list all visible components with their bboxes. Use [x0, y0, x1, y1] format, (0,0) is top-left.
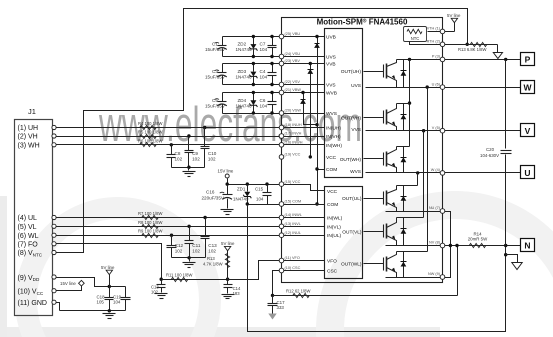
svg-text:VCC: VCC	[326, 155, 337, 161]
svg-text:R7 100 1/8W: R7 100 1/8W	[138, 211, 162, 216]
capacitor C13	[203, 216, 206, 219]
wire L3 collector	[397, 251, 428, 253]
svg-text:CSC: CSC	[327, 269, 338, 275]
svg-text:VCC: VCC	[327, 189, 338, 195]
svg-text:15V line: 15V line	[60, 281, 76, 286]
transistor Q5 low-side V	[383, 225, 385, 238]
svg-text:(20) VSW: (20) VSW	[285, 109, 302, 113]
resistor R7	[142, 215, 159, 219]
svg-text:15uF/35V: 15uF/35V	[205, 103, 226, 108]
zener ZD3	[253, 64, 255, 72]
svg-text:102: 102	[208, 249, 216, 254]
wire OUT(VH) gate	[364, 117, 384, 119]
capacitor C14	[227, 280, 229, 285]
wire Nw emitter row	[386, 277, 443, 279]
wire VCC-L entry	[282, 185, 325, 191]
svg-text:OUT(WH): OUT(WH)	[340, 157, 362, 163]
zener ZD2	[253, 37, 255, 45]
svg-text:NTC: NTC	[411, 36, 420, 41]
svg-text:1N4746: 1N4746	[236, 47, 253, 52]
svg-text:(11) GND: (11) GND	[18, 300, 47, 307]
svg-text:(12) INUL: (12) INUL	[285, 231, 301, 235]
svg-text:C10: C10	[208, 151, 217, 156]
svg-text:OUT(VH): OUT(VH)	[341, 115, 361, 121]
wire U output row	[366, 172, 521, 174]
svg-text:VVS: VVS	[351, 127, 361, 133]
ground arrow for C17	[268, 314, 276, 320]
capacitor C3 (electrolytic)	[223, 63, 325, 65]
resistor R4	[140, 125, 157, 129]
capacitor C20 DC link	[505, 60, 507, 149]
wire bootstrap feed W	[304, 93, 318, 125]
svg-text:U: U	[524, 168, 530, 178]
capacitor C12	[170, 234, 173, 237]
capacitor C13b FO filter	[161, 280, 163, 285]
svg-text:R5 100 1/8W: R5 100 1/8W	[138, 130, 162, 135]
capacitor C18	[109, 287, 111, 298]
svg-text:R13: R13	[207, 256, 215, 261]
svg-text:C20: C20	[486, 147, 495, 152]
svg-text:Motion-SPM® FNA41560: Motion-SPM® FNA41560	[317, 18, 408, 27]
terminal N	[521, 239, 535, 252]
svg-text:C6: C6	[260, 98, 266, 103]
svg-text:C1: C1	[212, 42, 218, 47]
capacitor C11	[187, 225, 190, 228]
diode D5	[403, 218, 405, 246]
svg-text:R9 100 1/8W: R9 100 1/8W	[138, 229, 162, 234]
svg-text:102: 102	[192, 157, 200, 162]
svg-text:V (5): V (5)	[432, 126, 441, 130]
terminal V	[521, 124, 535, 137]
wire VNTC trace	[57, 9, 468, 253]
svg-text:R4 100 1/8W: R4 100 1/8W	[138, 121, 162, 126]
ground for C18 C19	[109, 311, 111, 313]
resistor R9	[142, 233, 159, 237]
wire R12 riser	[457, 246, 459, 296]
svg-text:104: 104	[260, 47, 268, 52]
capacitor C15	[267, 185, 269, 193]
wire VH row	[57, 136, 325, 138]
svg-text:R12 62 1/8W: R12 62 1/8W	[286, 288, 310, 293]
wire VDD to 5V node	[57, 278, 126, 287]
svg-text:1N4749: 1N4749	[233, 197, 249, 202]
wire COM link	[318, 169, 325, 171]
svg-text:P: P	[525, 55, 531, 65]
svg-text:(21) VBW: (21) VBW	[285, 88, 302, 92]
svg-text:C11: C11	[192, 243, 201, 248]
svg-text:105: 105	[97, 299, 105, 304]
wire 15V rail	[228, 184, 282, 186]
transistor Q1 high-side U	[383, 65, 385, 78]
svg-text:W: W	[523, 82, 532, 92]
wire Nw link	[443, 246, 451, 278]
svg-text:C7: C7	[260, 42, 266, 47]
wire WL row	[57, 235, 325, 237]
svg-text:IN(WL): IN(WL)	[327, 216, 343, 222]
wire W output row	[366, 87, 521, 89]
wire OUT(VL) gate	[364, 231, 384, 233]
svg-text:OUT(UL): OUT(UL)	[342, 196, 362, 202]
diode bootstrap DV	[310, 67, 312, 77]
svg-text:VVB: VVB	[326, 62, 336, 68]
wire FO net	[57, 244, 162, 280]
IC U2 low-side driver block	[325, 187, 363, 279]
svg-text:UVS: UVS	[351, 83, 361, 89]
wire COM to N bus (bottom)	[248, 205, 506, 332]
wire IGBT2 collector	[397, 103, 410, 105]
resistor R13 4.7K pullup	[227, 251, 229, 280]
svg-text:R11 100 1/8W: R11 100 1/8W	[166, 273, 193, 278]
wire FO to VFO	[228, 261, 325, 280]
svg-text:P (3): P (3)	[432, 55, 441, 59]
svg-text:WVS: WVS	[326, 111, 337, 117]
svg-text:NW (9): NW (9)	[428, 272, 441, 276]
svg-text:(15) VCC: (15) VCC	[285, 180, 301, 184]
svg-text:IN(VH): IN(VH)	[326, 134, 341, 140]
wire CSC net	[282, 270, 325, 272]
capacitor C10	[203, 126, 206, 129]
diode D4	[403, 186, 405, 212]
svg-text:OUT(VL): OUT(VL)	[342, 229, 362, 235]
wire W riser to low side	[427, 88, 429, 252]
wire bootstrap feed U	[317, 37, 319, 205]
terminal U	[521, 166, 535, 179]
wire P rail	[397, 59, 521, 61]
resistor R14 shunt	[469, 243, 486, 247]
svg-text:NV (8): NV (8)	[429, 241, 441, 245]
svg-text:WVS: WVS	[350, 169, 361, 175]
svg-text:15uF/35V: 15uF/35V	[205, 47, 226, 52]
svg-text:5V line: 5V line	[221, 241, 235, 246]
svg-text:333: 333	[277, 305, 285, 310]
wire OUT(WH) gate	[364, 158, 384, 160]
diode bootstrap DU	[317, 41, 319, 51]
resistor R5	[140, 134, 157, 138]
zener ZD4	[253, 93, 255, 101]
svg-text:UVS: UVS	[326, 55, 336, 61]
svg-text:1N4746: 1N4746	[236, 75, 253, 80]
svg-text:ZD1: ZD1	[237, 187, 246, 192]
wire L1 collector	[397, 185, 418, 187]
svg-text:(25) VBU: (25) VBU	[285, 32, 301, 36]
svg-text:(5) VL: (5) VL	[18, 224, 37, 231]
svg-text:NU (7): NU (7)	[429, 206, 441, 210]
svg-text:1N4746: 1N4746	[236, 103, 253, 108]
wire Nu emitter row	[386, 211, 443, 213]
capacitor C9	[187, 134, 190, 137]
connector J1	[15, 107, 53, 316]
svg-text:104-630V: 104-630V	[480, 153, 499, 158]
5V line marker top right	[454, 23, 456, 32]
svg-text:C15: C15	[255, 187, 264, 192]
svg-text:(15) COM: (15) COM	[285, 200, 302, 204]
svg-text:104: 104	[113, 299, 121, 304]
wire IGBT3 collector	[397, 146, 410, 148]
svg-text:N: N	[524, 241, 530, 251]
svg-text:5V line: 5V line	[101, 265, 115, 270]
resistor R11	[162, 279, 228, 281]
terminal W	[521, 81, 535, 94]
svg-text:(11) VFO: (11) VFO	[285, 256, 300, 260]
capacitor C5 (electrolytic)	[223, 92, 325, 94]
wire N row	[443, 245, 521, 247]
svg-text:(22) VSV: (22) VSV	[285, 80, 301, 84]
module outline Motion-SPM	[282, 18, 443, 283]
wire cap bus 2	[172, 257, 206, 259]
wire OUT(UL) gate	[364, 198, 384, 200]
svg-text:WVB: WVB	[326, 91, 337, 97]
transistor Q4 low-side U	[383, 192, 385, 205]
svg-text:OUT(UH): OUT(UH)	[341, 69, 362, 75]
svg-text:(24) VSU: (24) VSU	[285, 52, 301, 56]
svg-text:102: 102	[175, 249, 183, 254]
resistor R12	[273, 295, 458, 297]
ground for R13	[497, 45, 499, 53]
diode D6	[403, 252, 405, 278]
svg-text:(19) VCC: (19) VCC	[285, 153, 301, 157]
svg-text:R8 100 1/8W: R8 100 1/8W	[138, 220, 162, 225]
svg-text:V: V	[525, 126, 531, 136]
diode D1	[403, 60, 405, 88]
svg-text:C4: C4	[260, 69, 266, 74]
svg-text:ZD3: ZD3	[238, 69, 247, 74]
IC U1 high-side driver block	[325, 29, 363, 178]
wire cap bus	[172, 167, 205, 169]
svg-text:C9: C9	[192, 151, 198, 156]
module pins right	[440, 29, 445, 34]
svg-text:102: 102	[175, 157, 183, 162]
svg-text:ZD4: ZD4	[238, 98, 247, 103]
wire V riser to low side	[423, 131, 425, 218]
transistor Q6 low-side W	[383, 258, 385, 271]
terminal P	[521, 53, 535, 66]
svg-text:(2) VH: (2) VH	[18, 134, 38, 141]
wire P riser	[409, 60, 411, 147]
capacitor C6	[272, 93, 274, 102]
5V line supply marker at R13	[224, 246, 230, 250]
svg-text:(6) WL: (6) WL	[18, 233, 39, 240]
svg-text:(4) UL: (4) UL	[18, 215, 38, 222]
svg-text:15uF/35V: 15uF/35V	[205, 75, 226, 80]
diode D2	[403, 104, 405, 131]
ground for C11-C13	[189, 258, 191, 262]
capacitor C7	[272, 37, 274, 46]
capacitor C1 (electrolytic)	[223, 36, 325, 38]
svg-text:220uF/35V: 220uF/35V	[202, 196, 225, 201]
wire bootstrap feed V	[310, 64, 312, 157]
15V line marker mid	[225, 174, 229, 178]
svg-text:C5: C5	[212, 98, 218, 103]
thermistor NTC box	[404, 27, 427, 42]
wire UH row	[57, 127, 325, 129]
capacitor C19	[125, 287, 127, 298]
svg-text:VVS: VVS	[326, 83, 336, 89]
svg-text:(16) INWH: (16) INWH	[285, 141, 303, 145]
wire VL row	[57, 226, 325, 228]
svg-text:102: 102	[192, 249, 200, 254]
ground for C16	[221, 209, 234, 211]
watermark background shapes	[0, 98, 553, 337]
connector J1 pins	[52, 125, 56, 129]
svg-text:(1) UH: (1) UH	[18, 125, 39, 132]
svg-text:104: 104	[256, 197, 264, 202]
wire N ground branch	[504, 253, 507, 256]
svg-text:R6 100 1/8W: R6 100 1/8W	[138, 138, 162, 143]
svg-text:(13) INVL: (13) INVL	[285, 222, 301, 226]
wire V output row	[366, 130, 521, 132]
svg-text:IN(UL): IN(UL)	[327, 233, 342, 239]
diode bootstrap DW	[303, 97, 305, 107]
svg-text:102: 102	[208, 157, 216, 162]
wire UL row	[57, 217, 325, 219]
wire L2 collector	[397, 217, 424, 219]
svg-text:U (6): U (6)	[432, 82, 441, 86]
svg-text:VFO: VFO	[327, 259, 337, 265]
capacitor C4	[272, 64, 274, 73]
resistor R8	[142, 224, 159, 228]
module pins left	[279, 34, 284, 39]
svg-text:COM: COM	[326, 167, 337, 173]
svg-text:15V line: 15V line	[218, 169, 234, 174]
svg-text:RTH (2): RTH (2)	[427, 40, 441, 44]
wire Nv emitter row	[386, 245, 443, 247]
svg-text:R13 6.8K 1/8W: R13 6.8K 1/8W	[458, 47, 486, 52]
5V line supply marker at J1	[109, 275, 111, 287]
svg-text:(3) WH: (3) WH	[18, 142, 40, 149]
svg-text:(17) INVH: (17) INVH	[285, 132, 302, 136]
wire VCC 15V stub	[57, 286, 82, 291]
svg-text:20mR 5W: 20mR 5W	[468, 237, 488, 242]
node FO-R13-C14	[226, 278, 229, 281]
wire U riser to low side	[417, 173, 419, 186]
svg-text:C16: C16	[206, 190, 215, 195]
svg-text:IN(VL): IN(VL)	[327, 224, 341, 230]
svg-text:C13: C13	[208, 243, 217, 248]
svg-text:(10) CSC: (10) CSC	[285, 266, 301, 270]
svg-text:(23) VBV: (23) VBV	[285, 59, 301, 63]
svg-text:ZD2: ZD2	[238, 42, 247, 47]
svg-text:4.7K 1/8W: 4.7K 1/8W	[203, 262, 223, 267]
wire OUT(UH) gate	[364, 71, 384, 73]
wire RTH pin row	[410, 42, 468, 45]
svg-text:UVB: UVB	[326, 35, 336, 41]
wire VNTC pin row	[428, 31, 455, 33]
svg-text:C3: C3	[212, 69, 218, 74]
capacitor C8	[170, 143, 173, 146]
svg-text:C12: C12	[175, 243, 184, 248]
svg-text:W (4): W (4)	[431, 168, 441, 172]
resistor R10 6.8K	[468, 44, 498, 46]
svg-text:IN(WH): IN(WH)	[326, 143, 342, 149]
svg-text:104: 104	[260, 75, 268, 80]
transistor Q2 high-side V	[383, 111, 385, 124]
svg-text:COM: COM	[327, 202, 338, 208]
svg-text:R14: R14	[473, 231, 482, 236]
capacitor C16 electrolytic	[227, 185, 229, 195]
svg-text:IN(UH): IN(UH)	[326, 126, 341, 132]
resistor R6	[140, 142, 157, 146]
svg-text:(18) INUH: (18) INUH	[285, 123, 302, 127]
svg-text:J1: J1	[28, 107, 36, 116]
svg-text:(7) FO: (7) FO	[18, 241, 39, 248]
svg-text:183: 183	[233, 291, 241, 296]
wire Nu link	[443, 212, 451, 246]
svg-text:C8: C8	[175, 151, 181, 156]
15V line marker at J1	[79, 280, 85, 286]
svg-text:5V line: 5V line	[447, 13, 461, 18]
transistor Q3 high-side W	[383, 153, 385, 166]
capacitor C17	[272, 296, 274, 304]
ground for C8-C10	[188, 168, 190, 171]
svg-text:OUT(WL): OUT(WL)	[341, 262, 362, 268]
svg-text:104: 104	[260, 103, 268, 108]
wire COM row	[248, 204, 325, 206]
diode D3	[403, 147, 405, 173]
wire WH row	[57, 144, 325, 146]
wire OUT(WL) gate	[364, 263, 384, 265]
zener ZD1	[247, 185, 249, 192]
wire GND row	[57, 303, 60, 311]
svg-text:VTH (1): VTH (1)	[427, 27, 441, 31]
svg-text:(14) INWL: (14) INWL	[285, 213, 302, 217]
wire GND rail	[60, 310, 126, 312]
